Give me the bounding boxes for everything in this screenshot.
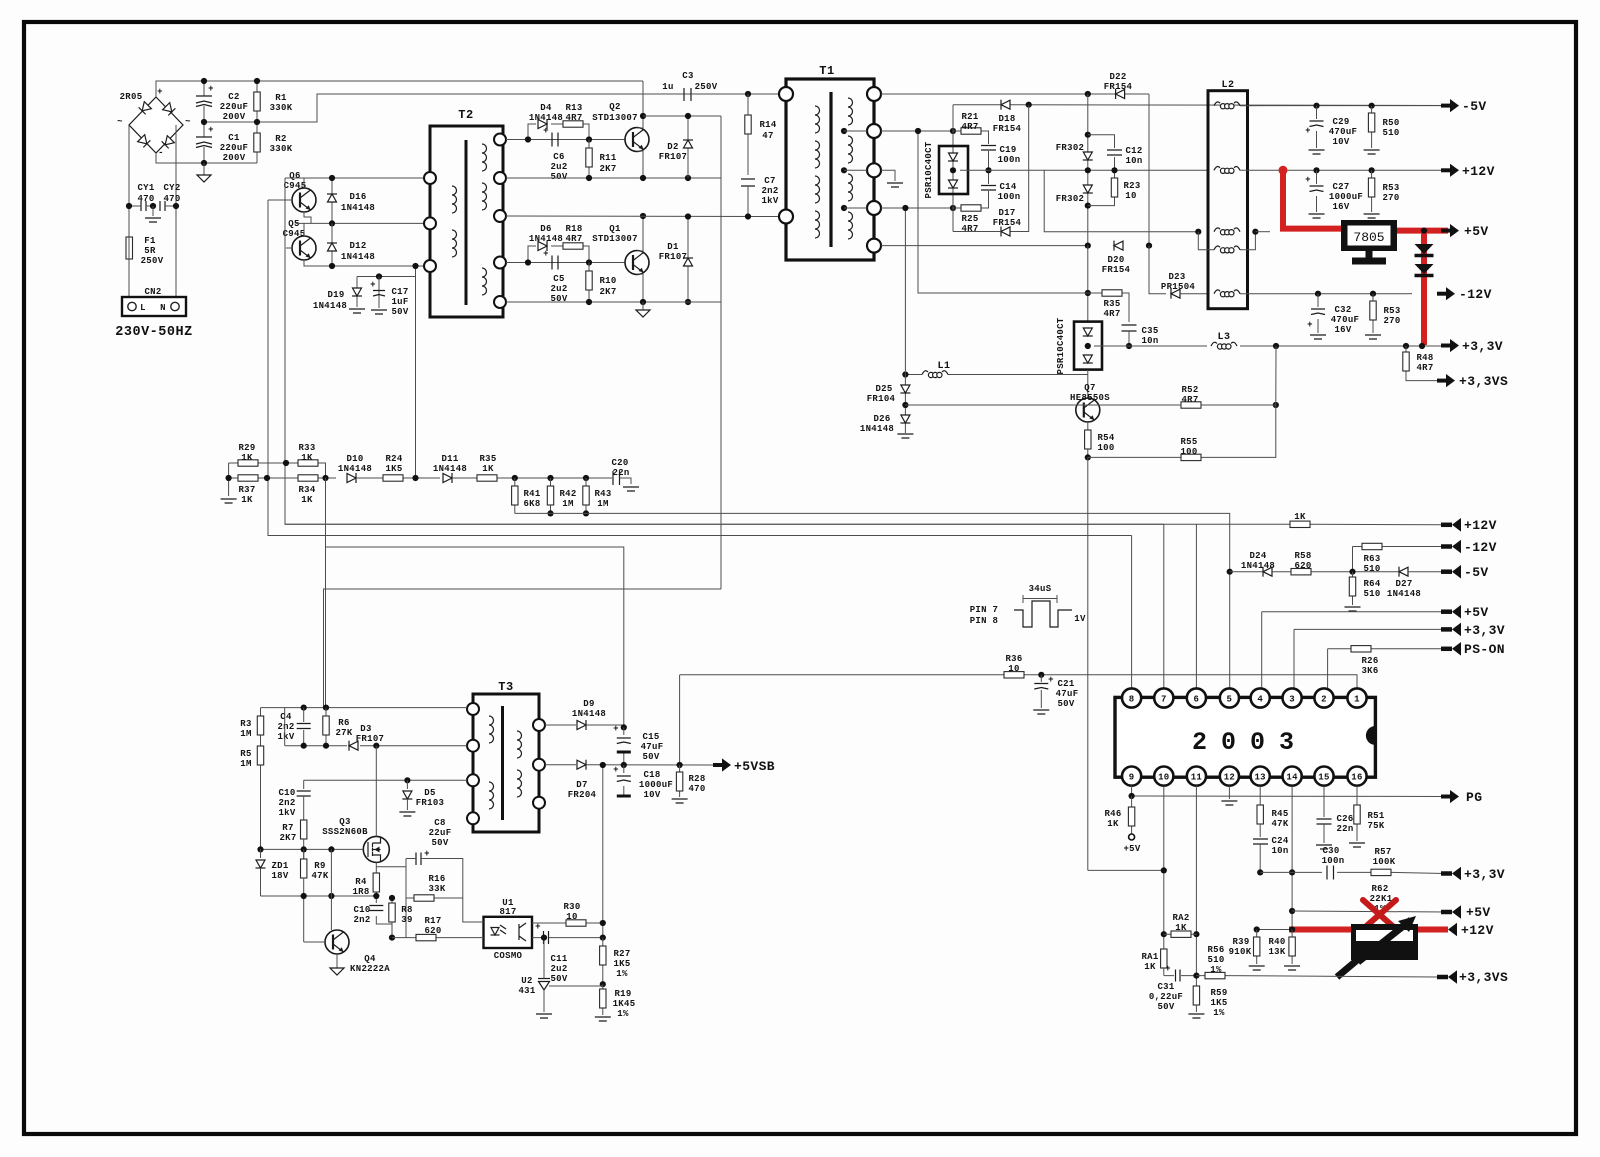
resistor R58 620 — [1272, 551, 1398, 575]
wire: pin11 vertical chain — [1195, 786, 1197, 986]
svg-text:47uF: 47uF — [641, 742, 664, 752]
svg-text:1N4148: 1N4148 — [313, 301, 347, 311]
svg-text:~: ~ — [117, 117, 123, 127]
resistor R50 — [1364, 103, 1400, 154]
svg-text:R16: R16 — [428, 874, 445, 884]
diode D11 1N4148 — [433, 454, 468, 483]
resistor R46 1K — [1104, 796, 1140, 854]
wire: Q1 collector to y216 rail — [637, 216, 643, 251]
svg-text:1K: 1K — [1107, 819, 1119, 829]
svg-text:+12V: +12V — [1464, 518, 1497, 533]
wire: D22 corner down to D20 row — [1148, 94, 1150, 246]
capacitor C4 2n2 1kV — [277, 708, 310, 746]
svg-text:100K: 100K — [1373, 857, 1396, 867]
svg-text:510: 510 — [1382, 128, 1399, 138]
svg-text:4R7: 4R7 — [565, 113, 582, 123]
svg-text:250V: 250V — [141, 256, 164, 266]
svg-text:+: + — [535, 922, 541, 932]
svg-text:N: N — [160, 303, 166, 313]
svg-text:R52: R52 — [1181, 385, 1198, 395]
potentiometer (crossed out) — [1337, 916, 1418, 977]
wire: Q3 drain from D3 node — [375, 746, 377, 837]
diode D24 1N4148 — [1230, 551, 1275, 577]
svg-text:1K5: 1K5 — [613, 959, 630, 969]
svg-text:5R: 5R — [144, 246, 156, 256]
svg-text:1K: 1K — [1294, 512, 1306, 522]
svg-text:+5VSB: +5VSB — [734, 759, 775, 774]
diode D22 FR154 — [1085, 72, 1133, 99]
svg-text:1%: 1% — [1210, 965, 1222, 975]
resistor R53 (2) — [1365, 291, 1401, 339]
wire: HV+ top rail — [156, 81, 643, 97]
svg-text:R3: R3 — [240, 719, 251, 729]
resistor R28 470 — [672, 765, 706, 803]
ground below C1 — [197, 163, 211, 182]
svg-text:R10: R10 — [599, 276, 616, 286]
svg-text:R63: R63 — [1363, 554, 1380, 564]
resistor 1K to +12V — [285, 512, 1445, 528]
capacitor C18 1000uF — [613, 765, 673, 800]
wire: T1 y208 to R25 — [881, 207, 953, 209]
resistor R16 33K — [406, 874, 463, 901]
resistor R1 — [254, 81, 293, 122]
svg-text:+: + — [613, 765, 619, 775]
svg-text:-5V: -5V — [1464, 565, 1489, 580]
capacitor C26 22n — [1316, 786, 1354, 849]
svg-text:FR154: FR154 — [993, 124, 1022, 134]
svg-text:C19: C19 — [999, 145, 1016, 155]
ground below Q1 emitter row — [636, 302, 650, 317]
diode D12 1N4148 — [327, 223, 375, 269]
svg-text:2: 2 — [1321, 695, 1327, 705]
svg-text:50V: 50V — [550, 974, 567, 984]
svg-text:+5V: +5V — [1464, 224, 1489, 239]
svg-text:14: 14 — [1286, 773, 1298, 783]
svg-text:1K: 1K — [482, 464, 494, 474]
svg-text:FR302: FR302 — [1056, 143, 1085, 153]
resistor R9 47K — [301, 849, 329, 942]
svg-text:1N4148: 1N4148 — [341, 252, 375, 262]
resistor R11 — [586, 140, 617, 179]
svg-text:22uF: 22uF — [429, 828, 452, 838]
regulator 7805 — [1341, 220, 1397, 261]
svg-text:C12: C12 — [1125, 146, 1142, 156]
svg-text:PSR10C40CT: PSR10C40CT — [1056, 317, 1066, 374]
wire: x1087.8 down to R35 row and PSR2 — [1087, 246, 1089, 322]
output arrow -5V (mid) — [1441, 565, 1489, 580]
wire: y216 rail T2 to T1 — [506, 215, 786, 218]
resistor R45 47K — [1257, 805, 1289, 837]
svg-text:R13: R13 — [565, 103, 582, 113]
svg-text:C18: C18 — [643, 770, 660, 780]
svg-text:1K: 1K — [301, 495, 313, 505]
capacitor C32 — [1307, 291, 1359, 339]
L2 winding -5V — [1214, 102, 1240, 109]
svg-text:+: + — [370, 280, 376, 290]
svg-text:50V: 50V — [1057, 699, 1074, 709]
diode FR302 (lower) — [1056, 185, 1093, 209]
output arrow +12V — [1441, 164, 1495, 179]
resistor R21 — [950, 112, 989, 141]
svg-text:47K: 47K — [1271, 819, 1288, 829]
T2 secondary windings — [482, 144, 487, 295]
svg-text:1%: 1% — [617, 1009, 629, 1019]
wire: Q3 source to C8/R16 bus — [376, 859, 406, 938]
wire: Q4 collector — [330, 849, 332, 930]
wire: Q4 base — [304, 941, 325, 943]
wire: +5VSB tap down — [679, 675, 681, 765]
fuse F1 — [126, 236, 164, 266]
inductor L3 — [1211, 332, 1279, 349]
svg-text:R46: R46 — [1104, 809, 1121, 819]
svg-text:T1: T1 — [819, 64, 834, 78]
svg-text:PS-ON: PS-ON — [1464, 642, 1505, 657]
svg-text:+3,3V: +3,3V — [1464, 623, 1505, 638]
svg-text:1M: 1M — [597, 499, 608, 509]
svg-text:10: 10 — [1125, 191, 1136, 201]
resistor R2 — [254, 122, 293, 163]
svg-text:1%: 1% — [1213, 1008, 1225, 1018]
svg-text:+12V: +12V — [1461, 923, 1494, 938]
capacitor C17 1uF — [370, 277, 409, 318]
wire: bus y547 T3/D9 feed — [326, 478, 624, 727]
svg-text:D10: D10 — [346, 454, 363, 464]
wire: bus line y513 R41 to pin5 — [515, 513, 1230, 688]
output arrow +5VSB — [713, 758, 775, 774]
resistor RA1 1K — [1141, 949, 1167, 976]
L2 winding -12V — [1214, 290, 1240, 297]
svg-text:2R05: 2R05 — [120, 92, 143, 102]
svg-text:R45: R45 — [1271, 809, 1288, 819]
svg-text:D7: D7 — [576, 780, 587, 790]
resistor R7 2K7 — [279, 820, 306, 861]
wire: vertical x905.6 from T1 y208 down to L1/D25/D26 — [904, 208, 906, 433]
IC bottom pins 9..16 — [1122, 767, 1367, 786]
output arrow +12V (mid) — [1441, 518, 1497, 533]
L2 winding +5V pair — [1195, 228, 1270, 253]
ground at T1 center tap — [881, 170, 903, 187]
resistor R23 — [1088, 167, 1141, 205]
capacitor C2 — [196, 81, 248, 122]
svg-text:4: 4 — [1257, 695, 1263, 705]
svg-text:27K: 27K — [335, 728, 352, 738]
resistor R48 — [1403, 346, 1437, 381]
capacitor C27 — [1305, 167, 1363, 218]
svg-text:33K: 33K — [428, 884, 445, 894]
wire: PSR1 vertical bus x953 — [952, 105, 954, 232]
capacitor C20 22n — [611, 458, 639, 491]
svg-text:1N4148: 1N4148 — [1241, 561, 1275, 571]
svg-text:D3: D3 — [360, 724, 371, 734]
svg-text:D25: D25 — [875, 384, 892, 394]
output arrow +5V — [1441, 224, 1489, 239]
resistor R43 1M — [583, 475, 612, 517]
svg-text:R27: R27 — [613, 949, 630, 959]
diode D4 1N4148 + resistor R13 loop — [528, 103, 589, 140]
svg-text:3: 3 — [1289, 695, 1295, 705]
transistor Q5 C945 — [283, 219, 316, 260]
svg-text:R29: R29 — [238, 443, 255, 453]
svg-text:R19: R19 — [614, 989, 631, 999]
diode D19 1N4148 — [313, 277, 365, 314]
output arrow +12V (bottom, red line) — [1448, 923, 1494, 938]
diode D9 1N4148 — [545, 699, 627, 731]
svg-text:FR107: FR107 — [659, 252, 688, 262]
svg-text:C24: C24 — [1271, 836, 1288, 846]
diode D6 1N4148 + resistor R18 loop — [528, 224, 589, 263]
svg-text:1u: 1u — [662, 82, 673, 92]
resistor R39 910K — [1229, 930, 1265, 971]
resistor R25 — [950, 198, 989, 234]
svg-text:100: 100 — [1180, 447, 1197, 457]
T3 terminals right — [533, 719, 545, 809]
diode pair on red vertical — [1415, 244, 1434, 276]
svg-text:1K: 1K — [1144, 962, 1156, 972]
svg-text:+: + — [543, 126, 549, 136]
svg-text:D16: D16 — [349, 192, 366, 202]
optocoupler U1 817 COSMO — [484, 898, 533, 961]
svg-text:+: + — [543, 249, 549, 259]
svg-text:620: 620 — [1294, 561, 1311, 571]
svg-text:100n: 100n — [1322, 856, 1345, 866]
T1 secondary windings — [848, 98, 853, 239]
output arrow PG — [1441, 790, 1482, 805]
wire: +5V sense line — [1292, 911, 1445, 912]
capacitor C21 47uF — [1033, 672, 1078, 714]
svg-text:FR154: FR154 — [1104, 82, 1133, 92]
svg-text:R18: R18 — [565, 224, 582, 234]
wire: PSR2 bottom to Q7 collector — [1087, 370, 1089, 398]
svg-text:RA2: RA2 — [1172, 913, 1189, 923]
output arrow -12V — [1408, 287, 1492, 302]
svg-text:~: ~ — [185, 117, 191, 127]
output arrow +3,3V (mid) — [1441, 623, 1505, 638]
svg-text:2u2: 2u2 — [550, 284, 567, 294]
svg-text:D1: D1 — [667, 242, 679, 252]
resistor R64 510 — [1345, 572, 1381, 611]
diode D25 FR104 — [867, 384, 911, 408]
svg-text:C3: C3 — [682, 71, 693, 81]
svg-text:PG: PG — [1466, 790, 1482, 805]
capacitor C1 — [196, 122, 248, 163]
svg-text:F1: F1 — [144, 236, 156, 246]
svg-text:C21: C21 — [1057, 679, 1074, 689]
svg-text:1K5: 1K5 — [385, 464, 402, 474]
dual diode PSR10C40CT (2) — [1056, 317, 1102, 374]
svg-text:22n: 22n — [612, 468, 629, 478]
svg-text:10V: 10V — [1332, 137, 1349, 147]
diode D7 FR204 — [545, 760, 713, 800]
waveform 34uS pulse — [970, 584, 1086, 627]
diode D10 1N4148 — [338, 454, 374, 483]
resistor R24 1K5 — [374, 454, 440, 481]
svg-text:22n: 22n — [1336, 824, 1353, 834]
diode D18 FR154 on -5V loop — [953, 100, 1445, 134]
svg-text:R39: R39 — [1232, 937, 1249, 947]
T2 terminals right — [494, 134, 506, 309]
svg-text:R21: R21 — [961, 112, 978, 122]
svg-text:1N4148: 1N4148 — [433, 464, 467, 474]
svg-text:C10: C10 — [278, 788, 295, 798]
svg-text:PSR10C40CT: PSR10C40CT — [924, 141, 934, 198]
svg-text:1K: 1K — [241, 453, 253, 463]
wire: emitter bottom row y302 — [506, 274, 721, 302]
wire: Q7 base row y405 — [905, 404, 1075, 406]
resistor R35 1K — [468, 454, 612, 481]
wire: long vertical x721 (drive return) — [720, 116, 722, 589]
svg-text:100n: 100n — [998, 192, 1021, 202]
svg-text:+3,3VS: +3,3VS — [1459, 374, 1508, 389]
svg-text:15: 15 — [1318, 773, 1329, 783]
resistor R41 6K8 — [512, 475, 541, 514]
wire: T1 top sec to D22 rail y94 — [881, 93, 1149, 95]
red wire: 7805 output to +5V arrow — [1397, 228, 1448, 234]
svg-text:R55: R55 — [1180, 437, 1197, 447]
svg-text:910K: 910K — [1229, 947, 1252, 957]
svg-text:R51: R51 — [1367, 811, 1384, 821]
resistor R37 — [229, 475, 267, 505]
svg-text:6: 6 — [1194, 695, 1200, 705]
transistor Q4 KN2222A — [325, 930, 390, 974]
svg-text:R11: R11 — [599, 153, 616, 163]
svg-text:200V: 200V — [223, 112, 246, 122]
diode D1 FR107 — [659, 213, 693, 305]
svg-text:RA1: RA1 — [1141, 952, 1158, 962]
capacitor C3 (HV coupling) — [317, 71, 786, 101]
svg-text:R64: R64 — [1363, 579, 1380, 589]
svg-text:10n: 10n — [1271, 846, 1288, 856]
svg-text:CN2: CN2 — [144, 287, 161, 297]
svg-text:817: 817 — [499, 907, 516, 917]
svg-text:D11: D11 — [441, 454, 458, 464]
svg-text:510: 510 — [1363, 589, 1380, 599]
svg-text:C7: C7 — [764, 176, 775, 186]
connector CN2 — [122, 287, 186, 316]
svg-text:C2: C2 — [228, 92, 239, 102]
svg-text:+5V: +5V — [1123, 844, 1140, 854]
svg-text:1N4148: 1N4148 — [1387, 589, 1421, 599]
MOSFET Q3 SSS2N60B — [322, 817, 389, 862]
svg-text:0,22uF: 0,22uF — [1149, 992, 1183, 1002]
svg-text:2n2: 2n2 — [761, 186, 778, 196]
svg-text:50V: 50V — [1157, 1002, 1174, 1012]
svg-text:+: + — [1165, 964, 1171, 974]
svg-text:+: + — [613, 724, 619, 734]
resistor R42 1M — [547, 475, 576, 517]
svg-text:FR103: FR103 — [416, 798, 445, 808]
svg-text:R23: R23 — [1123, 181, 1140, 191]
resistor R19 1K45 — [595, 984, 636, 1021]
svg-text:620: 620 — [424, 926, 441, 936]
svg-text:18V: 18V — [271, 871, 288, 881]
svg-text:2n2: 2n2 — [278, 798, 295, 808]
resistor R6 27K — [323, 708, 353, 746]
svg-text:D24: D24 — [1249, 551, 1266, 561]
wire: bus y589 from x721 to T3 — [324, 589, 722, 708]
svg-text:HE8550S: HE8550S — [1070, 393, 1110, 403]
svg-text:R41: R41 — [523, 489, 540, 499]
svg-text:FR107: FR107 — [659, 152, 688, 162]
svg-text:ZD1: ZD1 — [271, 861, 288, 871]
resistor R8 39 — [389, 895, 413, 941]
svg-text:2u2: 2u2 — [550, 162, 567, 172]
node dots input — [201, 78, 207, 84]
ground CY mid — [145, 206, 161, 222]
svg-text:+: + — [1307, 320, 1313, 330]
wire: left loop R29/R37 + ground — [221, 463, 237, 503]
svg-text:R2: R2 — [275, 134, 286, 144]
svg-text:47uF: 47uF — [1056, 689, 1079, 699]
svg-text:C29: C29 — [1332, 117, 1349, 127]
wire: Q5 collector line y223 — [296, 223, 430, 236]
svg-text:R48: R48 — [1416, 353, 1433, 363]
svg-text:510: 510 — [1363, 564, 1380, 574]
wire: +12V rail to arrow — [1240, 169, 1445, 171]
resistor R55 — [1088, 405, 1276, 461]
wire: y116 rail D2 top — [643, 115, 721, 117]
svg-text:KN2222A: KN2222A — [350, 964, 390, 974]
svg-text:1000uF: 1000uF — [1329, 192, 1363, 202]
T3 terminals left — [467, 703, 479, 824]
svg-text:Q3: Q3 — [339, 817, 350, 827]
svg-text:8: 8 — [1129, 695, 1135, 705]
output arrow +5V (bottom) — [1441, 905, 1491, 920]
resistor R56 510 1% — [1196, 945, 1437, 979]
svg-text:1kV: 1kV — [277, 732, 294, 742]
svg-text:3K6: 3K6 — [1361, 666, 1378, 676]
svg-text:-12V: -12V — [1464, 540, 1497, 555]
wire: T3 primary top row y707.6 — [261, 707, 468, 709]
svg-text:T2: T2 — [458, 108, 473, 122]
svg-text:47: 47 — [762, 131, 773, 141]
svg-text:1%: 1% — [616, 969, 628, 979]
resistor R17 620 — [392, 916, 473, 941]
red wire: +12V sense line — [1257, 929, 1292, 931]
resistor R4 1R8 — [352, 862, 379, 897]
wire: gate row y849.4 — [261, 848, 364, 850]
svg-text:STD13007: STD13007 — [592, 113, 638, 123]
T2 primary windings — [452, 186, 457, 257]
wire: Q5 emitter to y266 — [304, 260, 430, 266]
transistor Q1 STD13007 — [592, 224, 649, 275]
svg-text:+: + — [424, 849, 430, 859]
T1 terminals right — [867, 87, 881, 253]
svg-text:4R7: 4R7 — [961, 224, 978, 234]
svg-text:FR154: FR154 — [1102, 265, 1131, 275]
svg-text:U2: U2 — [521, 976, 532, 986]
svg-text:R6: R6 — [338, 718, 349, 728]
svg-text:D2: D2 — [667, 142, 678, 152]
wire: D3 row y745.7 — [285, 708, 467, 746]
svg-text:R5: R5 — [240, 749, 251, 759]
output arrow +5V (mid) — [1441, 605, 1489, 620]
red wire: vertical to +3,3V — [1421, 231, 1427, 345]
svg-text:16: 16 — [1351, 773, 1362, 783]
svg-text:R43: R43 — [594, 489, 611, 499]
wire: Q2 base row y140 — [506, 139, 625, 141]
wire: bridge left leg down to CN2 — [128, 125, 130, 298]
output arrow PS-ON — [1441, 642, 1505, 657]
wire: left vertical x260.5 R3/R5 chain — [260, 708, 262, 850]
svg-text:+3,3V: +3,3V — [1462, 339, 1503, 354]
svg-text:-5V: -5V — [1462, 99, 1487, 114]
resistor R26 3K6 + PS-ON — [1328, 646, 1445, 688]
svg-text:C14: C14 — [999, 182, 1016, 192]
svg-text:+: + — [157, 87, 163, 97]
svg-text:4R7: 4R7 — [1416, 363, 1433, 373]
resistor R57 100K — [1371, 847, 1396, 876]
wire: Q7 base line under R52 — [1076, 404, 1181, 406]
